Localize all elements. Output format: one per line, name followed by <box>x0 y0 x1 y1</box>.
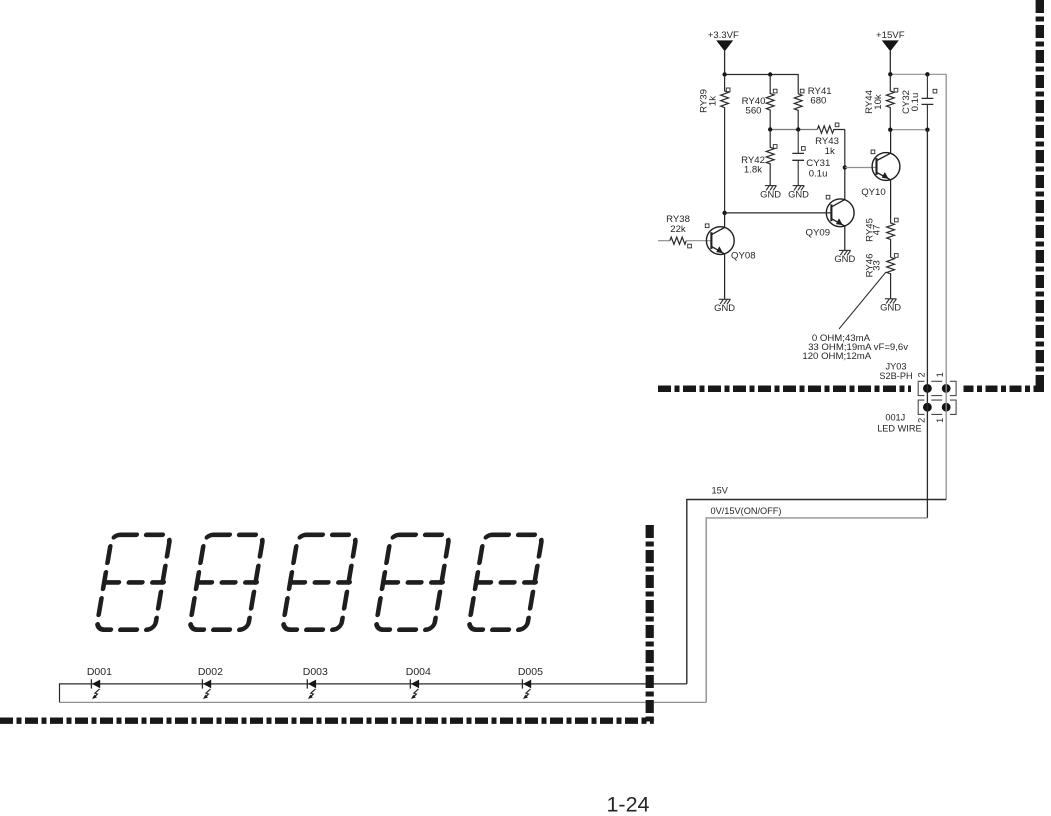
resistor RY43 pin square <box>835 123 839 127</box>
resistor RY41 body <box>794 94 802 130</box>
connector 001J label <box>877 413 921 434</box>
wire 3.3V rail <box>725 75 799 94</box>
svg-text:1.8k: 1.8k <box>744 165 762 176</box>
resistor RY43 body horizontal <box>817 126 845 133</box>
svg-text:0.1u: 0.1u <box>910 93 921 112</box>
ground under RY46 <box>885 299 897 304</box>
resistor RY40 label <box>742 96 766 117</box>
resistor RY46 label <box>864 254 882 278</box>
svg-text:D003: D003 <box>303 666 328 678</box>
svg-text:680: 680 <box>810 96 826 107</box>
wire QY10 collector row <box>890 129 927 131</box>
transistor QY08 pin square <box>705 224 709 228</box>
resistor RY38 lead left <box>658 240 670 242</box>
svg-text:GND: GND <box>788 188 809 199</box>
node rail dot B <box>768 72 772 76</box>
node 15V rail dot A <box>888 72 892 76</box>
wire mid junction row <box>770 129 817 131</box>
resistor RY45 label <box>864 218 882 242</box>
power +3.3VF symbol <box>716 40 733 51</box>
resistor RY40 pin square <box>773 89 777 93</box>
wire net 15V vertical gray from rail to pin1 and down <box>945 74 947 499</box>
border top-right horizontal dash-dot left part <box>658 385 911 392</box>
callout line RY46 options <box>839 272 886 329</box>
svg-text:QY10: QY10 <box>861 187 886 198</box>
svg-text:QY08: QY08 <box>731 251 756 262</box>
LED D001 <box>87 666 112 699</box>
svg-text:GND: GND <box>880 302 901 313</box>
svg-text:GND: GND <box>714 302 735 313</box>
node collector row dot A <box>888 128 892 132</box>
resistor RY44 label <box>864 89 884 113</box>
connector JY03 pin 1 circle <box>942 384 951 393</box>
svg-text:120 OHM;12mA: 120 OHM;12mA <box>802 351 871 362</box>
resistor RY38 pin square <box>688 244 692 248</box>
resistor RY42 body <box>766 130 774 186</box>
power +15VF symbol <box>882 40 899 51</box>
svg-text:1: 1 <box>935 418 945 423</box>
transistor QY10 pin square <box>871 150 875 154</box>
border top-right horizontal dash-dot right part <box>964 385 1045 392</box>
wire RY43 to QY10 base node <box>844 130 846 168</box>
border right vertical dash-dot <box>1036 0 1044 389</box>
ground under RY42 <box>765 186 777 191</box>
svg-text:+3.3VF: +3.3VF <box>708 30 739 41</box>
node rail dot A <box>722 72 726 76</box>
callout text ohm options <box>802 333 908 362</box>
svg-text:47: 47 <box>872 225 883 236</box>
digit 5 <box>468 535 544 630</box>
wire RY38 to QY08 base <box>686 240 711 242</box>
connector JY03 label <box>879 361 912 381</box>
transistor QY09 <box>826 168 854 251</box>
digit 2 <box>189 535 265 630</box>
transistor QY08 <box>706 213 734 299</box>
wire +15VF stem <box>889 51 891 74</box>
connector JY03 pin 2 circle <box>923 384 932 393</box>
resistor RY42 label <box>741 155 765 176</box>
LED D002 <box>198 666 223 699</box>
wire LED row top <box>60 684 687 703</box>
svg-text:33: 33 <box>872 260 883 271</box>
ground under QY09 <box>839 250 851 255</box>
resistor RY45 body <box>887 218 895 257</box>
resistor RY46 pin square <box>894 254 898 258</box>
capacitor CY32 label <box>901 90 921 114</box>
wire QY10 base lead <box>845 167 877 169</box>
resistor RY40 body <box>766 75 774 130</box>
ground under CY31 <box>793 186 805 191</box>
svg-text:+15VF: +15VF <box>876 30 905 41</box>
capacitor CY32 <box>926 74 928 98</box>
resistor RY38 label <box>666 214 690 235</box>
svg-text:LED WIRE: LED WIRE <box>877 424 921 434</box>
wire LED row bottom <box>60 701 707 703</box>
wire 15V horizontal run <box>687 500 946 684</box>
svg-text:15V: 15V <box>712 486 729 496</box>
wire net ON-OFF vertical black from collector row to pin2 and down <box>926 130 928 518</box>
resistor RY45 pin square <box>894 218 898 222</box>
svg-text:D005: D005 <box>518 666 543 678</box>
digit 4 <box>375 535 451 630</box>
node mid dot B <box>768 127 772 131</box>
svg-text:0V/15V(ON/OFF): 0V/15V(ON/OFF) <box>711 506 782 516</box>
connector 001J bracket <box>918 400 956 414</box>
wire +3.3VF stem <box>724 51 726 75</box>
svg-text:1k: 1k <box>825 146 835 157</box>
svg-text:2: 2 <box>917 372 927 377</box>
svg-text:D002: D002 <box>198 666 223 678</box>
digit 3 <box>282 535 358 630</box>
capacitor CY31 label <box>806 158 830 179</box>
resistor RY39 label <box>699 89 719 113</box>
node QY08 collector dot <box>722 211 726 215</box>
digit 1 <box>96 535 172 630</box>
LED D005 <box>518 666 543 699</box>
wire 15V rail <box>890 73 946 75</box>
connector JY03 bracket <box>918 381 956 395</box>
resistor RY44 pin square <box>894 88 898 92</box>
resistor RY38 body horizontal <box>670 237 687 244</box>
svg-text:10k: 10k <box>873 94 884 110</box>
connector 001J pin 2 circle <box>923 403 932 412</box>
wire QY09 base lead <box>725 212 832 214</box>
svg-text:QY09: QY09 <box>806 228 831 239</box>
resistor RY39 pin square <box>726 88 730 92</box>
resistor RY46 body <box>887 257 895 299</box>
svg-text:JY03: JY03 <box>886 361 907 371</box>
svg-text:1: 1 <box>935 372 945 377</box>
transistor QY10 <box>872 130 900 218</box>
resistor RY41 label <box>808 86 832 107</box>
node mid dot C <box>796 127 800 131</box>
resistor RY42 pin square <box>773 145 777 149</box>
svg-text:22k: 22k <box>670 224 686 235</box>
transistor QY09 pin square <box>826 195 830 199</box>
svg-text:D004: D004 <box>406 666 431 678</box>
svg-text:001J: 001J <box>885 413 905 423</box>
svg-text:2: 2 <box>917 418 927 423</box>
node 15V rail dot B <box>925 72 929 76</box>
LED D003 <box>303 666 328 699</box>
border left-bottom vertical dash-dot <box>646 525 654 724</box>
capacitor CY31 pin square <box>802 147 806 151</box>
svg-text:1k: 1k <box>708 96 719 106</box>
svg-text:560: 560 <box>745 105 761 116</box>
resistor R Y39 body <box>721 75 729 213</box>
LED D004 <box>406 666 431 699</box>
resistor RY43 label <box>815 136 839 157</box>
svg-text:GND: GND <box>760 188 781 199</box>
capacitor CY32 pin square <box>933 89 937 93</box>
wire ON-OFF horizontal run <box>706 518 927 703</box>
svg-text:1-24: 1-24 <box>606 793 649 816</box>
svg-text:D001: D001 <box>87 666 112 678</box>
resistor RY41 pin square <box>800 89 804 93</box>
svg-text:GND: GND <box>834 253 855 264</box>
ground under QY08 <box>719 299 731 304</box>
svg-text:0.1u: 0.1u <box>809 168 828 179</box>
svg-text:S2B-PH: S2B-PH <box>879 371 912 381</box>
node QY10 base dot <box>843 165 847 169</box>
resistor RY44 body <box>886 74 894 129</box>
border bottom horizontal dash-dot <box>0 718 654 724</box>
seven-segment display digits <box>96 535 544 630</box>
connector 001J pin 1 circle <box>942 403 951 412</box>
node collector row dot B <box>925 128 929 132</box>
capacitor CY31 <box>797 130 799 154</box>
